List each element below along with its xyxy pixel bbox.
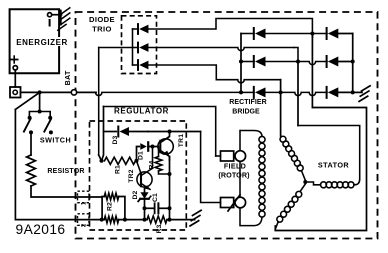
wire phase 1 route to stator xyxy=(275,108,366,231)
zener diode D2 xyxy=(140,192,148,199)
svg-text:D3: D3 xyxy=(112,135,119,144)
transistor TR1 xyxy=(158,139,173,154)
diode trio cathode bus xyxy=(132,29,134,65)
wire trio CR3 to phase 3 route xyxy=(148,65,216,80)
junction dot negative row3 xyxy=(351,90,355,94)
bridge diode C1 (row3 left) xyxy=(255,87,266,97)
ground (energizer) xyxy=(60,11,62,25)
junction dot R2 right xyxy=(123,218,127,222)
wire resistor to terminal 1 xyxy=(31,186,102,197)
BAT terminal node xyxy=(71,90,76,95)
svg-text:(ROTOR): (ROTOR) xyxy=(218,171,250,180)
switch blade A xyxy=(24,119,31,132)
bridge diode A2 (row1 right) xyxy=(328,29,339,39)
resistor (field resistor) xyxy=(27,155,36,186)
wire TR1 collector to lower brush xyxy=(201,132,221,203)
junction dot TR1 collector xyxy=(168,130,172,134)
wire energizer positive to terminal post xyxy=(14,70,16,87)
bridge positive chain xyxy=(240,34,242,93)
bridge diode B1 (row2 left) xyxy=(255,57,266,67)
diode D3 xyxy=(104,131,117,133)
junction dot row2 chain xyxy=(239,60,243,64)
svg-text:STATOR: STATOR xyxy=(318,161,350,170)
junction dot emitter R4 xyxy=(168,172,172,176)
switch pole A upper contact xyxy=(28,116,32,120)
junction dot J3 xyxy=(151,145,155,149)
svg-text:BAT: BAT xyxy=(65,70,72,85)
junction dot negative row2 xyxy=(351,60,355,64)
switch pole B upper contact xyxy=(48,116,52,120)
energizer positive terminal xyxy=(13,66,17,70)
wire trio drop diagonal xyxy=(99,155,102,161)
svg-text:C1: C1 xyxy=(152,193,159,202)
wire phase 2 route to stator xyxy=(298,126,360,180)
svg-text:D2: D2 xyxy=(132,190,139,199)
bridge diode C2 (row3 right) xyxy=(328,87,339,97)
lower brush spring stroke xyxy=(228,195,240,211)
svg-text:REGULATOR: REGULATOR xyxy=(114,107,169,116)
bridge diode B2 (row2 right) xyxy=(328,57,339,67)
stator coil B tail xyxy=(275,222,278,229)
junction dot R2 left xyxy=(100,218,104,222)
svg-text:2: 2 xyxy=(81,223,87,227)
energizer negative polarity tick xyxy=(49,20,51,26)
field loop left side xyxy=(239,131,241,151)
diode D1 xyxy=(140,143,147,150)
upper brush xyxy=(221,151,234,161)
field loop bottom xyxy=(240,217,262,226)
resistor R4 xyxy=(155,157,162,172)
regulator ground bus xyxy=(89,219,104,221)
svg-text:1: 1 xyxy=(81,201,87,205)
svg-text:D1: D1 xyxy=(137,151,144,160)
svg-text:BRIDGE: BRIDGE xyxy=(232,108,260,115)
wire pi to upper brush xyxy=(216,155,221,157)
junction dot phase 3 xyxy=(279,90,283,94)
wire TR1 emitter down xyxy=(169,156,171,219)
svg-text:RESISTOR: RESISTOR xyxy=(47,168,84,175)
svg-text:9A2016: 9A2016 xyxy=(16,222,66,237)
trio diode CR3 xyxy=(133,64,139,66)
wire trio CR1 to bridge phase 1 xyxy=(148,19,312,34)
svg-text:FIELD: FIELD xyxy=(224,161,246,170)
stator coil C (right phase) xyxy=(305,182,320,185)
bridge row 2 wire xyxy=(241,61,254,63)
energizer negative terminal xyxy=(48,13,52,17)
svg-text:TR2: TR2 xyxy=(128,169,135,182)
junction dot switch tee xyxy=(38,110,42,114)
ground (regulator bus) xyxy=(193,210,202,215)
switch pole B lower contact xyxy=(49,130,53,134)
junction dot BAT chain xyxy=(239,90,243,94)
junction dot phase 2 xyxy=(296,60,300,64)
wire phase 2 riser xyxy=(297,62,299,126)
junction dot W1 right xyxy=(168,206,172,210)
stator coil B (bottom left phase) xyxy=(301,184,306,191)
svg-text:DIODE: DIODE xyxy=(89,15,115,24)
wire pi leg down to junction xyxy=(102,107,104,161)
energizer box xyxy=(10,9,60,73)
alternator housing dashed border xyxy=(76,12,378,239)
trio diode CR1 xyxy=(133,28,139,30)
svg-text:RECTIFIER: RECTIFIER xyxy=(229,99,266,106)
svg-text:SWITCH: SWITCH xyxy=(40,135,71,144)
junction dot (switch tap) xyxy=(38,90,42,94)
wire phase 1 riser lower xyxy=(311,34,313,108)
regulator dashed box xyxy=(90,121,187,230)
diode trio box xyxy=(122,16,157,74)
junction dot J1 xyxy=(100,159,104,163)
trio diode CR2 xyxy=(133,47,139,49)
stator coil A (top left phase) xyxy=(280,136,286,142)
transistor TR2 xyxy=(137,172,152,187)
wire J2 up to D1 xyxy=(137,147,140,161)
terminal 2 marker xyxy=(78,214,90,226)
terminal 1 marker xyxy=(78,191,90,203)
bridge row 3 wire (BAT line) xyxy=(241,91,254,93)
wire BAT bus to bridge xyxy=(96,92,242,95)
wire trio output down to regulator xyxy=(98,48,100,156)
wire diagonal junction to left drop xyxy=(15,92,39,109)
svg-text:R3: R3 xyxy=(156,224,163,233)
wire phase 3 riser to stator xyxy=(280,80,282,136)
svg-text:R1: R1 xyxy=(114,165,121,174)
junction dot D2 w1 xyxy=(143,206,147,210)
wire D2 to bus xyxy=(144,199,146,220)
stator Y center junction dot xyxy=(303,180,307,184)
wire to case ground xyxy=(353,91,362,93)
junction dot emitter bus xyxy=(168,218,172,222)
bridge row 1 wire xyxy=(241,33,254,35)
wire phase 3 route xyxy=(216,80,280,83)
switch blade B xyxy=(44,119,51,132)
wire switch feed tee xyxy=(29,112,50,118)
svg-text:R2: R2 xyxy=(106,202,113,211)
svg-text:ENERGIZER: ENERGIZER xyxy=(16,38,68,47)
terminal post (square with circle) xyxy=(10,87,21,98)
wire BAT node to rectifier xyxy=(77,91,96,93)
wire trio CR2 to bridge phase 2 xyxy=(148,48,294,51)
lower brush xyxy=(221,198,234,208)
junction dot phase 1 xyxy=(310,32,314,36)
field coil xyxy=(259,136,265,142)
capacitor C1 xyxy=(154,203,156,213)
bridge negative bus xyxy=(352,34,354,93)
ground (rectifier bridge) xyxy=(362,86,371,91)
wire terminal post to BAT node xyxy=(21,91,72,93)
resistor R1 xyxy=(105,157,136,164)
wire field supply pi xyxy=(104,107,216,157)
wire D3 to TR1 collector xyxy=(148,131,201,133)
wire left drop to bottom xyxy=(15,110,89,220)
field loop top xyxy=(240,131,262,137)
wire junction to switch xyxy=(39,92,41,111)
bridge diode A1 (row1 left) xyxy=(255,29,266,39)
svg-text:TR1: TR1 xyxy=(178,134,185,147)
svg-text:TRIO: TRIO xyxy=(92,24,112,33)
energizer plus sign xyxy=(11,59,18,61)
junction dot D2 bus xyxy=(143,218,147,222)
wire TR2 emitter to D2 xyxy=(144,187,146,192)
switch pole A lower contact xyxy=(29,130,33,134)
junction dot J2 xyxy=(135,159,139,163)
wire phase 1 riser xyxy=(311,34,313,38)
wire W1 capacitor link xyxy=(145,207,154,209)
wire switch to resistor xyxy=(30,132,32,155)
resistor R2 parallel pair xyxy=(102,197,104,220)
